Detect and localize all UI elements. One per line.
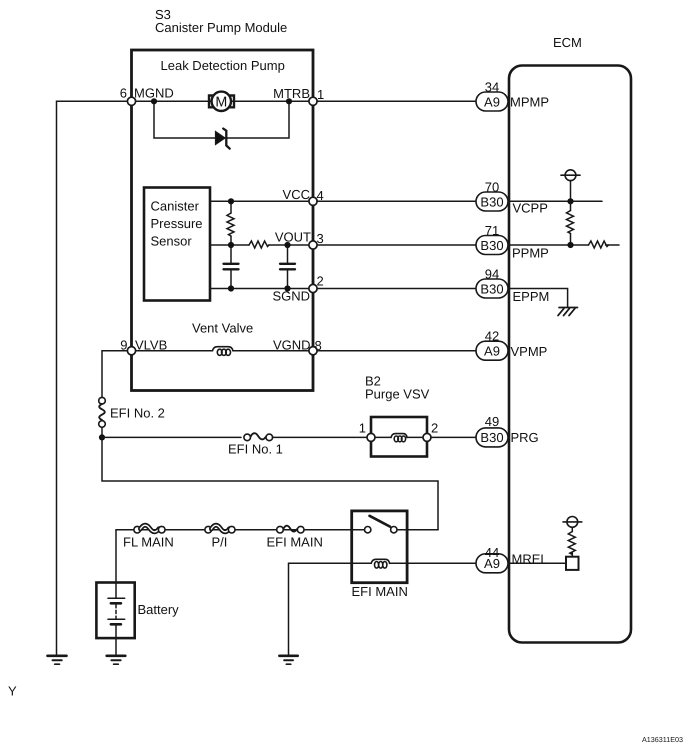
svg-text:PPMP: PPMP [512,246,549,261]
svg-text:94: 94 [485,266,499,281]
fusible link P/I [205,525,235,533]
wire VCC line [210,200,313,202]
relay switch blade [370,516,391,527]
svg-text:EFI MAIN: EFI MAIN [267,535,323,550]
wire pin2 to EPPM oval [317,288,476,290]
svg-text:VCC: VCC [283,187,310,202]
svg-text:B30: B30 [480,194,503,209]
inductor relay coil [371,559,389,568]
svg-text:A9: A9 [484,556,500,571]
svg-text:Canister Pump Module: Canister Pump Module [155,20,287,35]
wire switch line left [352,529,364,531]
node junction MGND branch [151,98,157,104]
svg-text:VCPP: VCPP [513,201,548,216]
capacitor C1 [224,245,239,289]
svg-text:MGND: MGND [134,85,174,100]
svg-text:Y: Y [8,684,17,699]
wire relay feed: junction down, across, down to switch [102,437,438,529]
svg-text:B30: B30 [480,281,503,296]
wire pin8 to VPMP oval [317,350,476,352]
motor M (leak detection pump motor) [209,92,234,111]
svg-text:A9: A9 [484,94,500,109]
svg-text:M: M [215,94,227,110]
wire main ground bus left: horizontal from left vertical to pin 6 [57,101,132,655]
ground G1 bottom-left [48,656,67,664]
svg-text:MREL: MREL [512,551,548,566]
fuse EFI No.2 (vertical) [99,397,106,427]
wire coil to ground [289,563,352,655]
wire resistor to pad [571,552,573,556]
svg-text:EPPM: EPPM [513,289,550,304]
wire diode branch [154,101,289,138]
svg-text:FL MAIN: FL MAIN [123,535,174,550]
pin 1 VSV [367,433,375,441]
svg-text:ECM: ECM [553,35,582,50]
pin 3 VOUT [309,241,317,249]
svg-text:EFI No. 2: EFI No. 2 [110,406,165,421]
pin 2 VSV [423,433,431,441]
pin 1 MTRB [309,97,317,105]
connector oval 71/B30 PPMP [476,236,508,255]
text section 2 [8,535,408,699]
svg-text:B30: B30 [480,430,503,445]
wire vent valve line left [132,350,213,352]
relay switch contact left [365,527,371,533]
node SGND junction left [228,285,234,291]
svg-text:Vent Valve: Vent Valve [192,321,253,336]
resistor R-ppmp horizontal [589,241,609,248]
resistor R-pullup vertical [567,201,574,245]
svg-text:8: 8 [315,338,322,353]
resistor R-sense vertical between VCC and VOUT [227,201,234,245]
svg-text:SGND: SGND [272,289,310,304]
svg-text:6: 6 [120,85,127,100]
pad square MREL [566,557,579,570]
connector oval 49/B30 PRG [476,428,508,447]
text section 1 [110,7,438,457]
svg-text:A9: A9 [484,344,500,359]
wire EPPM internal to ground [509,289,568,308]
ground G2 under relay coil [279,656,297,664]
inductor L-vent (vent valve coil) [213,347,233,356]
svg-text:Pressure: Pressure [151,216,203,231]
pin 4 VCC [309,197,317,205]
wire relay coil line left [352,562,372,564]
wire VOUT resistor to pin 3 [269,244,314,246]
svg-text:34: 34 [485,79,499,94]
battery cell symbol [108,583,125,655]
pin 2 SGND [309,284,317,292]
wire VLVB to EFI No.2 [102,351,132,398]
svg-text:Purge VSV: Purge VSV [365,387,430,402]
canister pressure sensor box [144,188,210,301]
capacitor C2 [280,245,295,289]
svg-text:1: 1 [317,87,324,102]
svg-text:A136311E03: A136311E03 [642,735,683,744]
wire EFI No.1 to VSV pin1 [272,436,371,438]
svg-text:B30: B30 [480,238,503,253]
pin 9 VLVB [127,347,135,355]
svg-text:PRG: PRG [511,430,539,445]
power symbol MREL [563,517,582,532]
node PPMP junction [567,242,573,248]
pin 6 MGND [127,97,135,105]
svg-text:2: 2 [317,274,324,289]
wire coil to MREL oval [407,562,476,564]
Leak Detection Pump module box (S3) [132,50,314,391]
resistor R-mrel vertical [568,532,575,555]
purge VSV box B2 [371,417,427,457]
node junction EFI feed [99,434,105,440]
ECM box [509,66,631,643]
svg-text:MTRB: MTRB [273,86,310,101]
svg-text:70: 70 [485,179,499,194]
svg-text:3: 3 [317,231,324,246]
connector oval 34/A9 MPMP [476,92,508,111]
wire battery riser [115,530,117,583]
node VCPP junction [567,198,573,204]
wire VCPP internal [509,200,602,202]
node VCC junction [228,198,234,204]
relay EFI MAIN box [352,511,407,583]
text section 3: ECM labels [480,35,581,571]
diode D1 (zener) [216,129,230,149]
resistor R-vout horizontal [249,241,269,248]
node junction MTRB branch [286,98,292,104]
connector oval 44/A9 MREL [476,554,508,573]
svg-text:Battery: Battery [138,602,180,617]
svg-text:P/I: P/I [212,535,228,550]
wire vent valve line right [233,350,313,352]
svg-text:Sensor: Sensor [151,233,193,248]
svg-text:71: 71 [485,223,499,238]
svg-text:VOUT: VOUT [275,230,311,245]
wire VSV internal line left [371,436,391,438]
inductor L-vsv (purge VSV coil) [391,434,407,442]
svg-text:VGND: VGND [273,338,311,353]
node SGND junction right [284,285,290,291]
ground G3 under battery [107,656,126,664]
wire VSV pin2 to PRG oval [431,436,476,438]
wire PPMP internal right [606,244,620,246]
wire pin1 to MPMP oval [317,100,476,102]
fuse EFI No.1 (horizontal) [244,433,273,440]
wire pin4 to VCPP oval [317,200,476,202]
connector oval 42/A9 VPMP [476,341,508,360]
wire EFI No.1 line [102,436,241,438]
fuse EFI MAIN [277,526,304,533]
node VOUT junction right [284,242,290,248]
connector oval 70/B30 VCPP [476,192,508,211]
svg-text:Canister: Canister [151,199,200,214]
svg-text:1: 1 [359,421,366,436]
wire MGND-MTRB motor line [132,100,314,102]
fusible link FL MAIN [134,525,165,533]
wire pin3 to PPMP oval [317,244,476,246]
svg-text:2: 2 [431,421,438,436]
svg-text:9: 9 [120,338,127,353]
connector oval 94/B30 EPPM [476,279,508,298]
node VOUT junction left [228,242,234,248]
wire relay coil line right [390,562,408,564]
wire battery feed line [116,529,352,531]
svg-text:4: 4 [317,188,324,203]
svg-text:EFI No. 1: EFI No. 1 [228,442,283,457]
wire MREL internal [509,562,566,564]
wire SGND line [210,288,313,290]
svg-text:EFI MAIN: EFI MAIN [352,584,408,599]
svg-text:Leak Detection Pump: Leak Detection Pump [161,58,285,73]
wire VSV internal line right [407,436,427,438]
wire switch line right [397,529,438,531]
battery B1 box [96,583,134,639]
svg-text:VPMP: VPMP [511,344,548,359]
svg-text:VLVB: VLVB [135,338,167,353]
wire VOUT line sensor to resistor [210,244,249,246]
pin 8 VGND [309,347,317,355]
chassis ground EPPM [558,308,578,316]
power symbol VCPP pull-up [561,170,580,202]
svg-text:MPMP: MPMP [510,94,549,109]
relay switch contact right [391,527,397,533]
wire EFI No.2 to junction [101,427,103,437]
wire PPMP internal left [509,244,589,246]
svg-text:49: 49 [485,414,499,429]
svg-text:42: 42 [485,329,499,344]
